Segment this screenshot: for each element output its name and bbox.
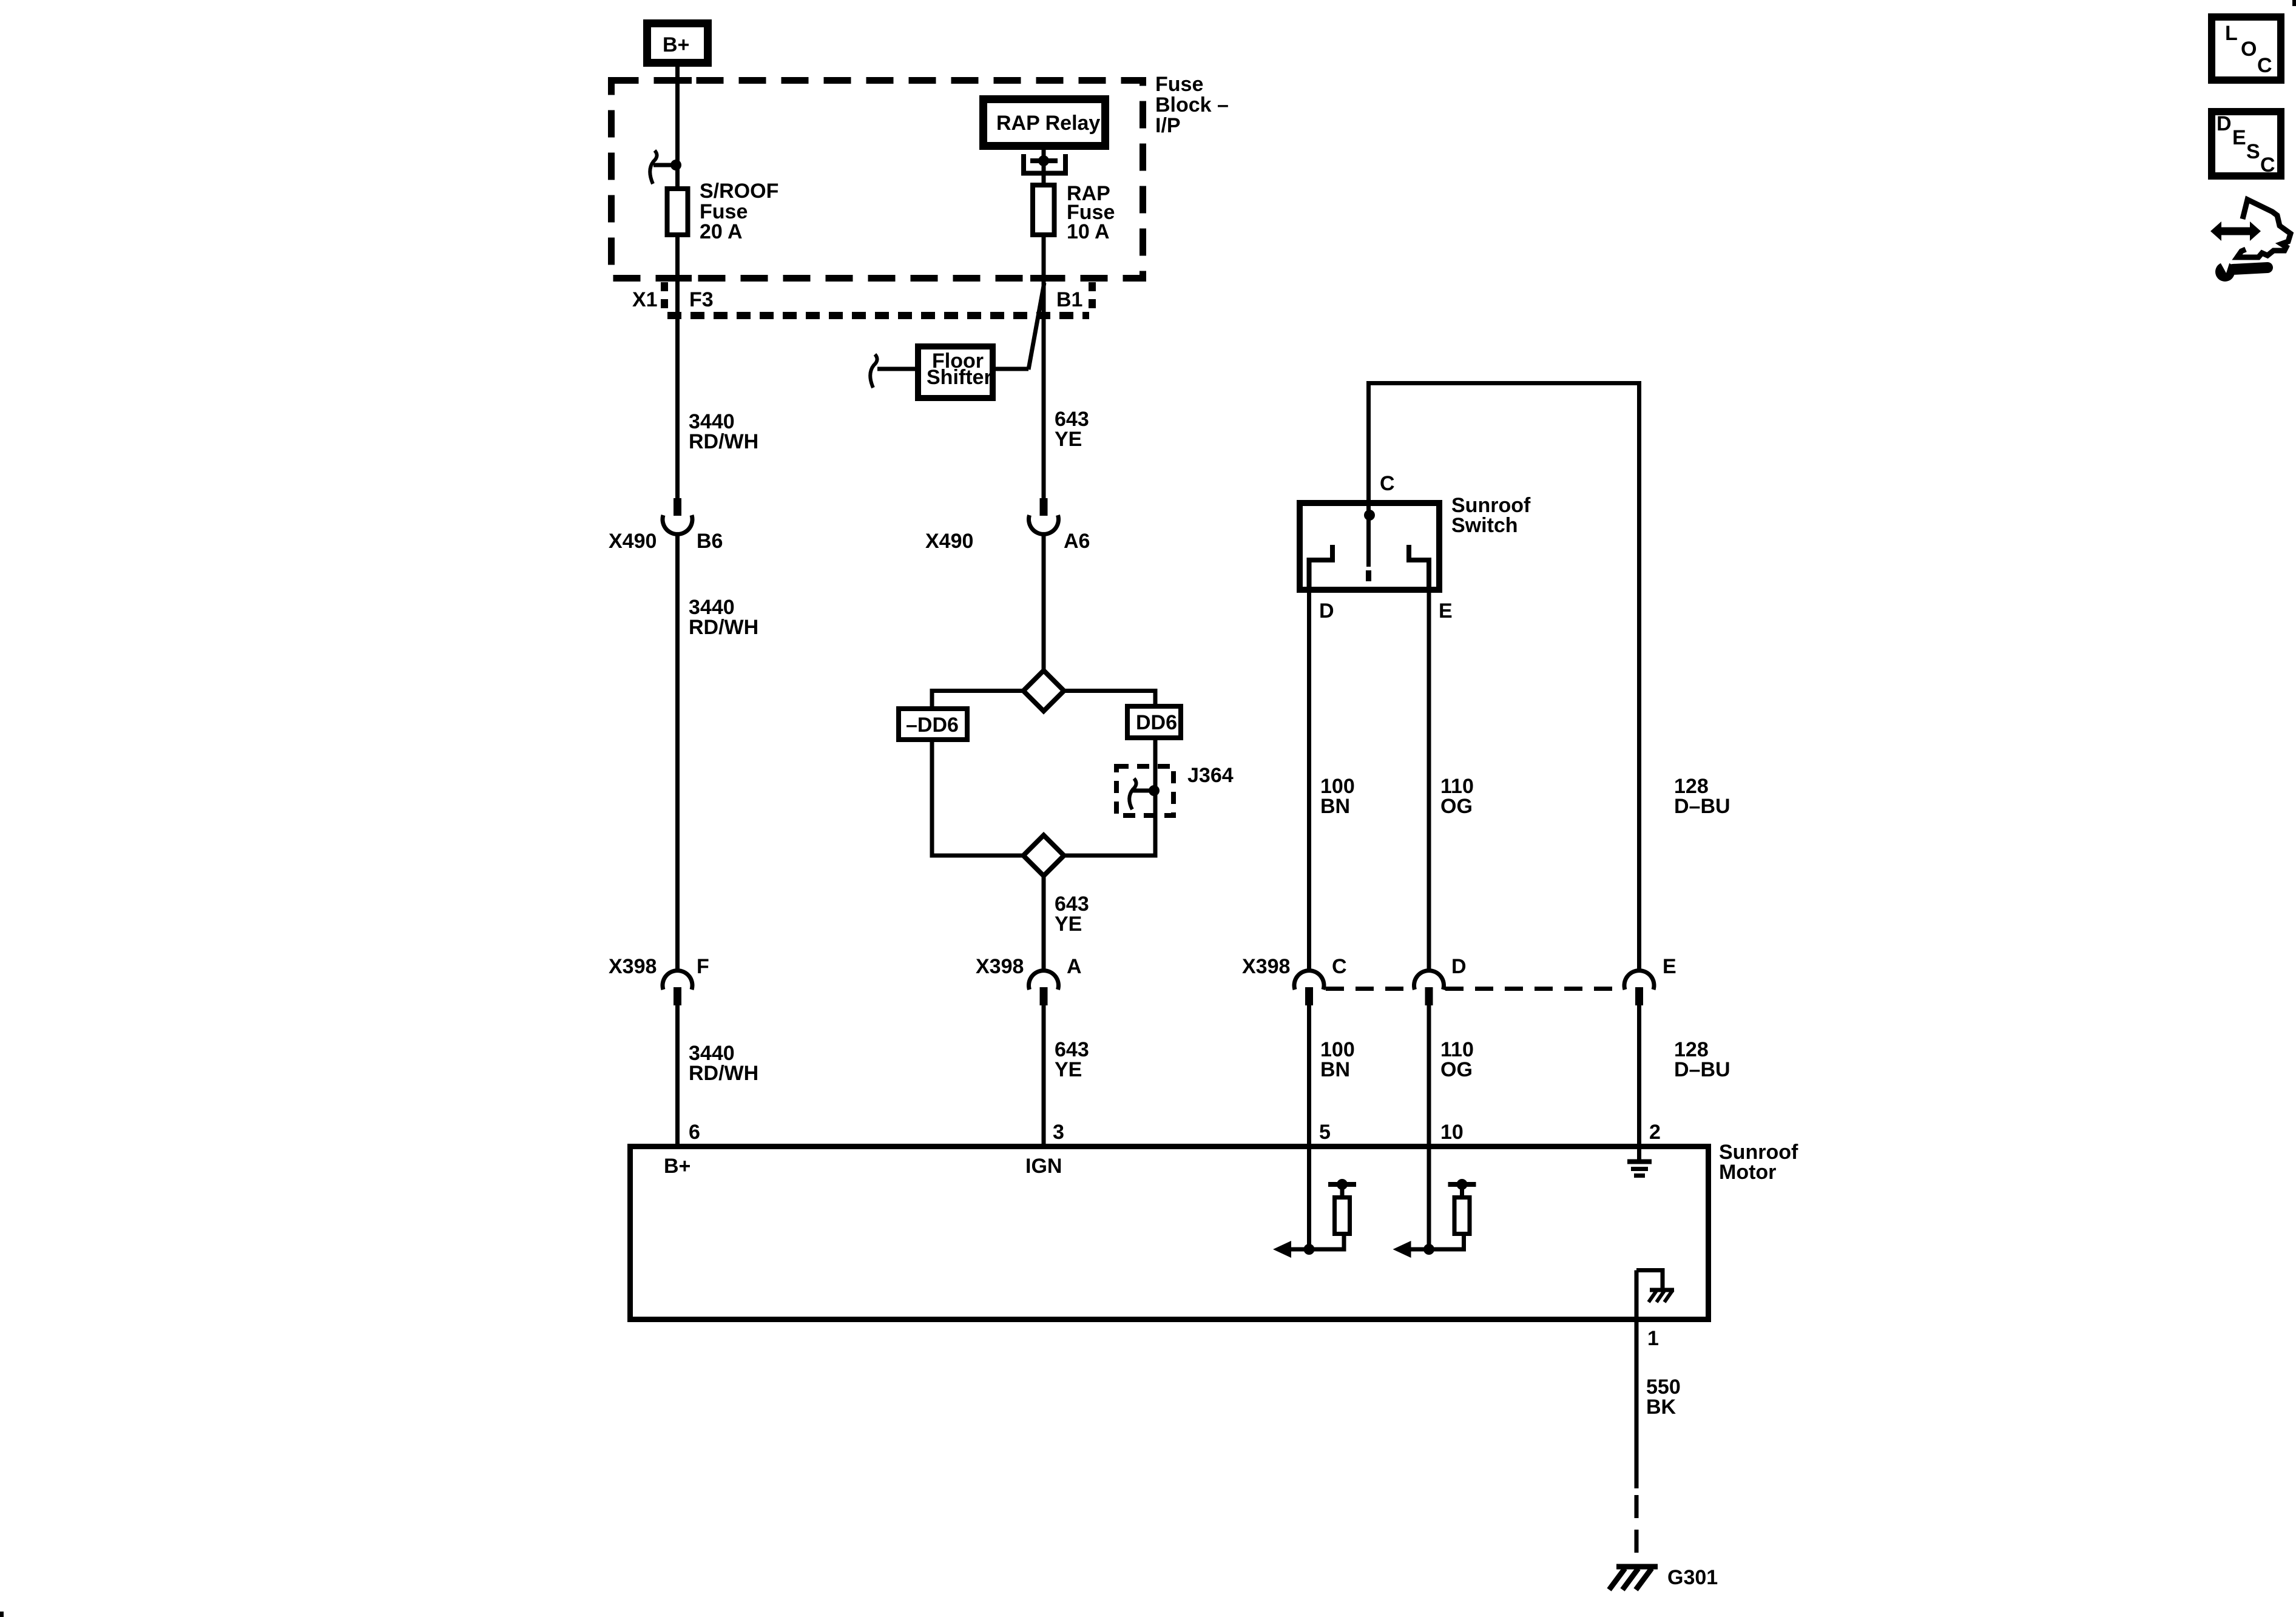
svg-text:Switch: Switch [1451,514,1518,537]
clip splice on B+ wire [650,150,681,184]
motor pin 10 resistor [1429,1179,1476,1249]
wire X398 A to motor pin 3 [1042,1005,1046,1147]
wire label 3440 RD/WH (3) [689,1042,758,1085]
svg-text:E: E [2232,126,2246,149]
svg-text:A6: A6 [1064,530,1090,553]
wire motor pin 1 550 BK [1635,1271,1639,1489]
connector X398 F [609,955,709,1005]
svg-text:RD/WH: RD/WH [689,1062,758,1085]
svg-text:L: L [2225,22,2238,45]
svg-text:C: C [2257,54,2272,77]
fuse RAP 10 A [1033,182,1115,243]
wire label 128 D-BU (1) [1674,775,1730,818]
svg-text:A: A [1067,955,1082,978]
fuse S/ROOF 20 A [667,180,779,243]
svg-text:D: D [2217,112,2232,135]
wire label 550 BK [1646,1376,1681,1419]
wire floor shifter tap diagonal [1028,283,1044,370]
splice diamond top [1024,670,1064,711]
wire B+ to S/ROOF fuse [675,67,680,186]
fuse block I/P dashed box [612,77,1143,282]
wire fuse F3 down to X490 [675,235,680,498]
Floor Shifter [870,346,1028,398]
svg-text:5: 5 [1319,1121,1331,1144]
svg-text:X490: X490 [925,530,973,553]
wire right loop to DD6 [1064,691,1156,707]
svg-text:Fuse: Fuse [1155,73,1203,96]
wire switch D to X398 C [1307,582,1311,971]
wire 128 D-BU down right side [1637,381,1641,971]
wire label 643 YE (2) [1055,893,1089,936]
wire label 128 D-BU (2) [1674,1038,1730,1081]
svg-text:RD/WH: RD/WH [689,430,758,453]
connector X398 D [1414,955,1467,1005]
svg-text:1: 1 [1647,1327,1659,1350]
svg-text:Shifter: Shifter [927,366,992,389]
wire B6 to X398 F [675,533,680,971]
svg-text:I/P: I/P [1155,114,1181,137]
svg-text:B6: B6 [697,530,723,553]
icon DESC box [2212,112,2281,177]
svg-text:X398: X398 [1242,955,1290,978]
svg-text:B+: B+ [663,33,689,56]
node -DD6 [899,709,967,740]
svg-text:YE: YE [1055,1058,1082,1081]
wire dashed to G301 [1635,1495,1639,1564]
ground G301 [1609,1566,1718,1590]
Sunroof Motor box [630,1141,1798,1320]
svg-text:J364: J364 [1187,764,1234,787]
svg-text:S: S [2246,140,2260,163]
switch contact E [1409,545,1429,593]
wire B1 down to X490 A6 [1042,232,1046,498]
wire top run to 128 circuit [1369,381,1639,385]
wire label 3440 RD/WH (1) [689,410,758,453]
svg-text:BN: BN [1320,1058,1350,1081]
splice J364 dashed box [1116,764,1234,815]
motor pin 5 wiper arrow [1273,1241,1315,1258]
label Fuse Block - I/P [1155,73,1229,137]
svg-text:BN: BN [1320,795,1350,818]
relay contact [1021,150,1068,183]
wire X398 F to motor pin 6 [675,1005,680,1147]
svg-text:RAP Relay: RAP Relay [996,112,1100,135]
wire -DD6 to bottom diamond [932,740,1024,856]
wire label 110 OG (1) [1440,775,1474,818]
motor pin 10 wiper arrow [1393,1241,1435,1258]
wire DD6 through J364 to bottom diamond [1064,738,1156,856]
wire label 100 BN (2) [1320,1038,1355,1081]
page mark top-right [2292,0,2296,6]
svg-text:C: C [2260,154,2275,177]
svg-text:10 A: 10 A [1067,220,1110,243]
svg-text:6: 6 [689,1121,700,1144]
svg-text:X398: X398 [976,955,1024,978]
connector X398 E [1624,955,1676,1005]
svg-text:10: 10 [1440,1121,1464,1144]
svg-text:D–BU: D–BU [1674,1058,1730,1081]
svg-text:Block –: Block – [1155,93,1229,116]
svg-text:OG: OG [1440,1058,1473,1081]
icon LOC box [2212,17,2281,80]
power feed B+ [647,24,708,63]
icon wrench [2215,258,2267,282]
wire label 643 YE (3) [1055,1038,1089,1081]
wire label 3440 RD/WH (2) [689,596,758,639]
connector X490 A6 [925,498,1090,553]
wire X398 E to motor pin 2 ground [1637,1005,1641,1160]
connector X490 B6 [609,498,723,553]
svg-text:DD6: DD6 [1136,711,1177,734]
svg-text:3: 3 [1053,1121,1064,1144]
motor pin 1 internal ground hook [1636,1271,1674,1303]
wire label 110 OG (2) [1440,1038,1474,1081]
svg-text:D–BU: D–BU [1674,795,1730,818]
svg-text:20 A: 20 A [700,220,743,243]
switch common pole [1364,510,1375,581]
connector row X1/F3 dashed line [632,282,1092,316]
wire label 100 BN (1) [1320,775,1355,818]
svg-text:D: D [1319,599,1334,623]
svg-text:S/ROOF: S/ROOF [700,180,778,203]
wire switch C feed [1366,381,1371,515]
icon adjust arrow [2210,221,2261,241]
switch contact D [1309,545,1333,593]
wire X398 C to motor pin 5 [1307,1005,1311,1249]
motor pin 2 internal ground [1627,1162,1652,1176]
motor pin 5 resistor [1309,1179,1357,1249]
connector X398 C [1242,955,1347,1005]
wire bottom diamond to X398 A [1042,876,1046,972]
Sunroof Switch [1300,494,1531,590]
svg-text:E: E [1663,955,1676,978]
svg-text:BK: BK [1646,1396,1676,1419]
svg-text:F: F [697,955,709,978]
wire label 643 YE (1) [1055,408,1089,451]
svg-text:RD/WH: RD/WH [689,616,758,639]
svg-text:G301: G301 [1667,1566,1718,1589]
svg-text:C: C [1332,955,1347,978]
svg-text:X398: X398 [609,955,657,978]
wire A6 to splice diamond [1042,533,1046,672]
svg-text:2: 2 [1649,1121,1661,1144]
RAP Relay [984,100,1106,146]
svg-text:YE: YE [1055,428,1082,451]
wire X398 D to motor pin 10 [1427,1005,1431,1249]
node DD6 [1127,706,1181,738]
svg-text:OG: OG [1440,795,1473,818]
svg-text:X1: X1 [632,288,658,311]
svg-text:B1: B1 [1056,288,1082,311]
svg-text:B+: B+ [664,1155,690,1178]
svg-text:YE: YE [1055,913,1082,936]
svg-text:X490: X490 [609,530,657,553]
page mark bottom-left [0,1612,4,1617]
svg-text:–DD6: –DD6 [906,714,959,737]
svg-text:D: D [1451,955,1467,978]
svg-text:IGN: IGN [1025,1155,1062,1178]
svg-text:O: O [2241,38,2257,61]
svg-text:F3: F3 [689,288,714,311]
svg-text:C: C [1380,472,1395,495]
connector X398 A [976,955,1082,1005]
wire switch E to X398 D [1427,582,1431,971]
connector X398 dashed gang line [1326,987,1622,991]
icon banner outline [2237,200,2291,257]
svg-text:Motor: Motor [1719,1161,1776,1184]
wire left loop to -DD6 [932,691,1024,709]
splice diamond bottom [1024,836,1064,876]
svg-text:E: E [1439,599,1453,623]
